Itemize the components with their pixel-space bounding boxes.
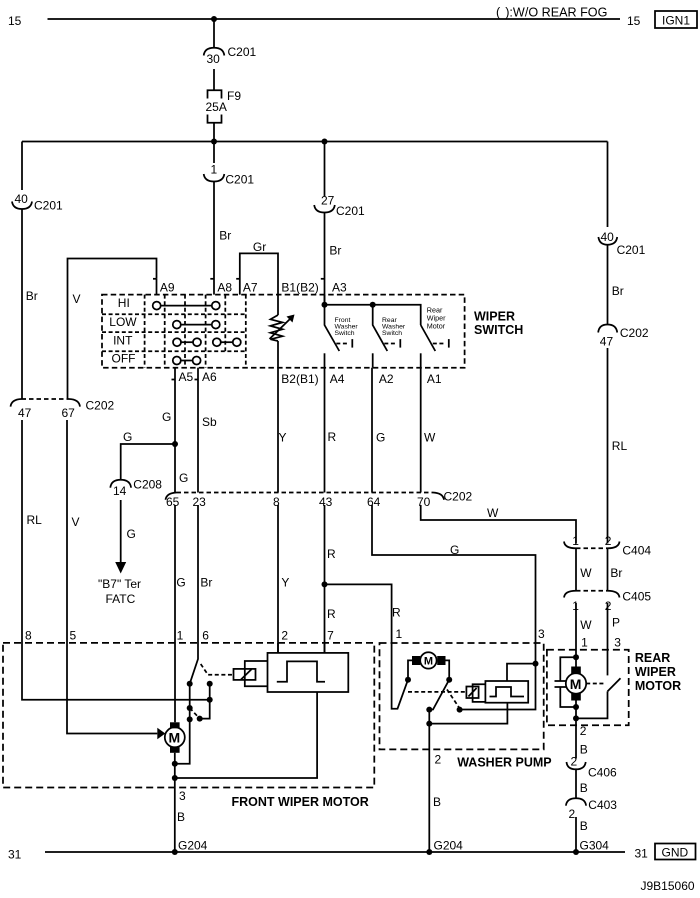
svg-text:G: G — [162, 410, 171, 424]
svg-text:B2(B1): B2(B1) — [281, 372, 318, 386]
svg-text:C201: C201 — [336, 204, 365, 218]
svg-text:B: B — [580, 781, 588, 795]
svg-text:( ):W/O REAR FOG: ( ):W/O REAR FOG — [496, 6, 607, 20]
svg-text:WIPER: WIPER — [474, 309, 515, 323]
svg-text:3: 3 — [179, 789, 186, 803]
svg-text:G: G — [127, 527, 136, 541]
svg-text:V: V — [73, 292, 81, 306]
svg-text:14: 14 — [113, 484, 127, 498]
svg-text:Motor: Motor — [427, 322, 446, 331]
svg-text:C202: C202 — [444, 490, 473, 504]
svg-text:IGN1: IGN1 — [662, 14, 690, 28]
svg-text:OFF: OFF — [112, 352, 136, 366]
svg-text:B: B — [177, 810, 185, 824]
svg-text:C202: C202 — [620, 326, 649, 340]
svg-text:15: 15 — [627, 14, 641, 28]
svg-text:65: 65 — [166, 495, 180, 509]
svg-text:C403: C403 — [588, 798, 617, 812]
svg-text:C202: C202 — [86, 399, 115, 413]
svg-text:G204: G204 — [178, 839, 208, 853]
svg-text:1: 1 — [211, 162, 218, 176]
svg-text:RL: RL — [612, 439, 628, 453]
svg-text:A9: A9 — [160, 281, 175, 295]
svg-text:HI: HI — [118, 296, 130, 310]
svg-text:2: 2 — [571, 755, 578, 769]
svg-text:67: 67 — [62, 406, 76, 420]
svg-text:Sb: Sb — [202, 415, 217, 429]
svg-text:C201: C201 — [617, 243, 646, 257]
svg-text:Br: Br — [612, 284, 624, 298]
svg-text:47: 47 — [600, 335, 614, 349]
svg-text:GND: GND — [662, 846, 689, 860]
svg-text:M: M — [169, 730, 181, 746]
svg-text:27: 27 — [321, 193, 335, 207]
svg-text:"B7" Ter: "B7" Ter — [98, 577, 141, 591]
svg-text:25A: 25A — [206, 100, 227, 114]
svg-text:P: P — [612, 616, 620, 630]
svg-text:2: 2 — [580, 724, 587, 738]
svg-text:G: G — [123, 430, 132, 444]
svg-text:2: 2 — [569, 807, 576, 821]
svg-text:INT: INT — [113, 334, 133, 348]
svg-text:G: G — [176, 576, 185, 590]
svg-text:C404: C404 — [622, 544, 651, 558]
svg-text:3: 3 — [614, 636, 621, 650]
svg-text:C406: C406 — [588, 766, 617, 780]
svg-text:47: 47 — [18, 406, 32, 420]
svg-text:Br: Br — [200, 576, 212, 590]
svg-text:G204: G204 — [434, 839, 464, 853]
svg-text:40: 40 — [15, 192, 29, 206]
svg-text:1: 1 — [177, 629, 184, 643]
svg-text:Y: Y — [281, 576, 289, 590]
svg-text:FATC: FATC — [106, 592, 136, 606]
svg-text:LOW: LOW — [109, 315, 137, 329]
svg-text:A7: A7 — [243, 281, 258, 295]
svg-text:R: R — [327, 547, 336, 561]
svg-text:G: G — [450, 543, 459, 557]
svg-text:WASHER PUMP: WASHER PUMP — [457, 756, 551, 770]
svg-text:A6: A6 — [202, 370, 217, 384]
svg-text:FRONT WIPER MOTOR: FRONT WIPER MOTOR — [232, 795, 369, 809]
svg-text:Br: Br — [329, 244, 341, 258]
svg-text:1: 1 — [396, 627, 403, 641]
svg-text:F9: F9 — [227, 89, 241, 103]
svg-text:C201: C201 — [34, 199, 63, 213]
svg-text:Gr: Gr — [253, 240, 266, 254]
svg-text:7: 7 — [327, 629, 334, 643]
svg-text:5: 5 — [70, 629, 77, 643]
svg-text:2: 2 — [605, 534, 612, 548]
svg-text:40: 40 — [601, 230, 615, 244]
svg-text:30: 30 — [207, 52, 221, 66]
svg-text:3: 3 — [538, 627, 545, 641]
svg-text:1: 1 — [581, 636, 588, 650]
svg-text:8: 8 — [25, 629, 32, 643]
svg-text:W: W — [580, 566, 592, 580]
svg-text:M: M — [424, 655, 433, 667]
svg-text:70: 70 — [417, 495, 431, 509]
svg-text:Switch: Switch — [382, 330, 402, 337]
svg-text:R: R — [392, 606, 401, 620]
svg-text:W: W — [580, 618, 592, 632]
svg-text:Y: Y — [279, 431, 287, 445]
svg-text:C405: C405 — [622, 590, 651, 604]
svg-text:C208: C208 — [133, 478, 162, 492]
svg-text:2: 2 — [435, 753, 442, 767]
svg-text:31: 31 — [635, 847, 649, 861]
svg-text:A2: A2 — [379, 372, 394, 386]
svg-text:MOTOR: MOTOR — [635, 679, 681, 693]
svg-text:B: B — [580, 743, 588, 757]
svg-text:W: W — [424, 431, 436, 445]
svg-text:Br: Br — [610, 566, 622, 580]
svg-text:1: 1 — [572, 534, 579, 548]
svg-text:A8: A8 — [217, 281, 232, 295]
svg-text:2: 2 — [281, 629, 288, 643]
svg-text:RL: RL — [27, 513, 43, 527]
svg-text:R: R — [327, 607, 336, 621]
svg-text:G: G — [179, 471, 188, 485]
svg-text:Switch: Switch — [335, 330, 355, 337]
svg-text:8: 8 — [273, 495, 280, 509]
svg-text:Br: Br — [219, 229, 231, 243]
svg-text:WIPER: WIPER — [635, 665, 676, 679]
svg-text:B1(B2): B1(B2) — [281, 281, 318, 295]
svg-text:A3: A3 — [332, 281, 347, 295]
svg-text:G304: G304 — [580, 839, 610, 853]
svg-text:B: B — [433, 795, 441, 809]
svg-text:W: W — [487, 506, 499, 520]
svg-text:C201: C201 — [225, 173, 254, 187]
svg-text:C201: C201 — [228, 45, 257, 59]
svg-text:B: B — [580, 819, 588, 833]
svg-text:M: M — [570, 676, 582, 692]
svg-text:15: 15 — [8, 14, 22, 28]
svg-text:31: 31 — [8, 848, 22, 862]
svg-text:G: G — [376, 431, 385, 445]
svg-text:R: R — [328, 430, 337, 444]
svg-text:A1: A1 — [427, 372, 442, 386]
svg-text:Br: Br — [26, 289, 38, 303]
svg-text:A5: A5 — [179, 370, 194, 384]
svg-text:REAR: REAR — [635, 651, 670, 665]
svg-text:SWITCH: SWITCH — [474, 323, 523, 337]
svg-text:A4: A4 — [330, 372, 345, 386]
svg-text:J9B15060: J9B15060 — [641, 879, 695, 893]
svg-text:23: 23 — [193, 495, 207, 509]
svg-text:V: V — [72, 515, 80, 529]
svg-text:43: 43 — [319, 495, 333, 509]
svg-text:6: 6 — [202, 629, 209, 643]
svg-text:64: 64 — [367, 495, 381, 509]
